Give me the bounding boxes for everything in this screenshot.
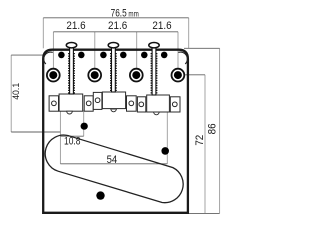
svg-text:21.6: 21.6 xyxy=(152,21,171,32)
svg-text:54: 54 xyxy=(107,154,118,166)
svg-text:40.1: 40.1 xyxy=(11,83,21,100)
svg-text:86: 86 xyxy=(207,123,218,134)
svg-text:72: 72 xyxy=(195,134,206,145)
svg-text:21.6: 21.6 xyxy=(66,21,85,32)
svg-text:10.8: 10.8 xyxy=(64,136,80,148)
svg-text:21.6: 21.6 xyxy=(108,21,127,32)
svg-text:76.5 mm: 76.5 mm xyxy=(111,8,139,20)
